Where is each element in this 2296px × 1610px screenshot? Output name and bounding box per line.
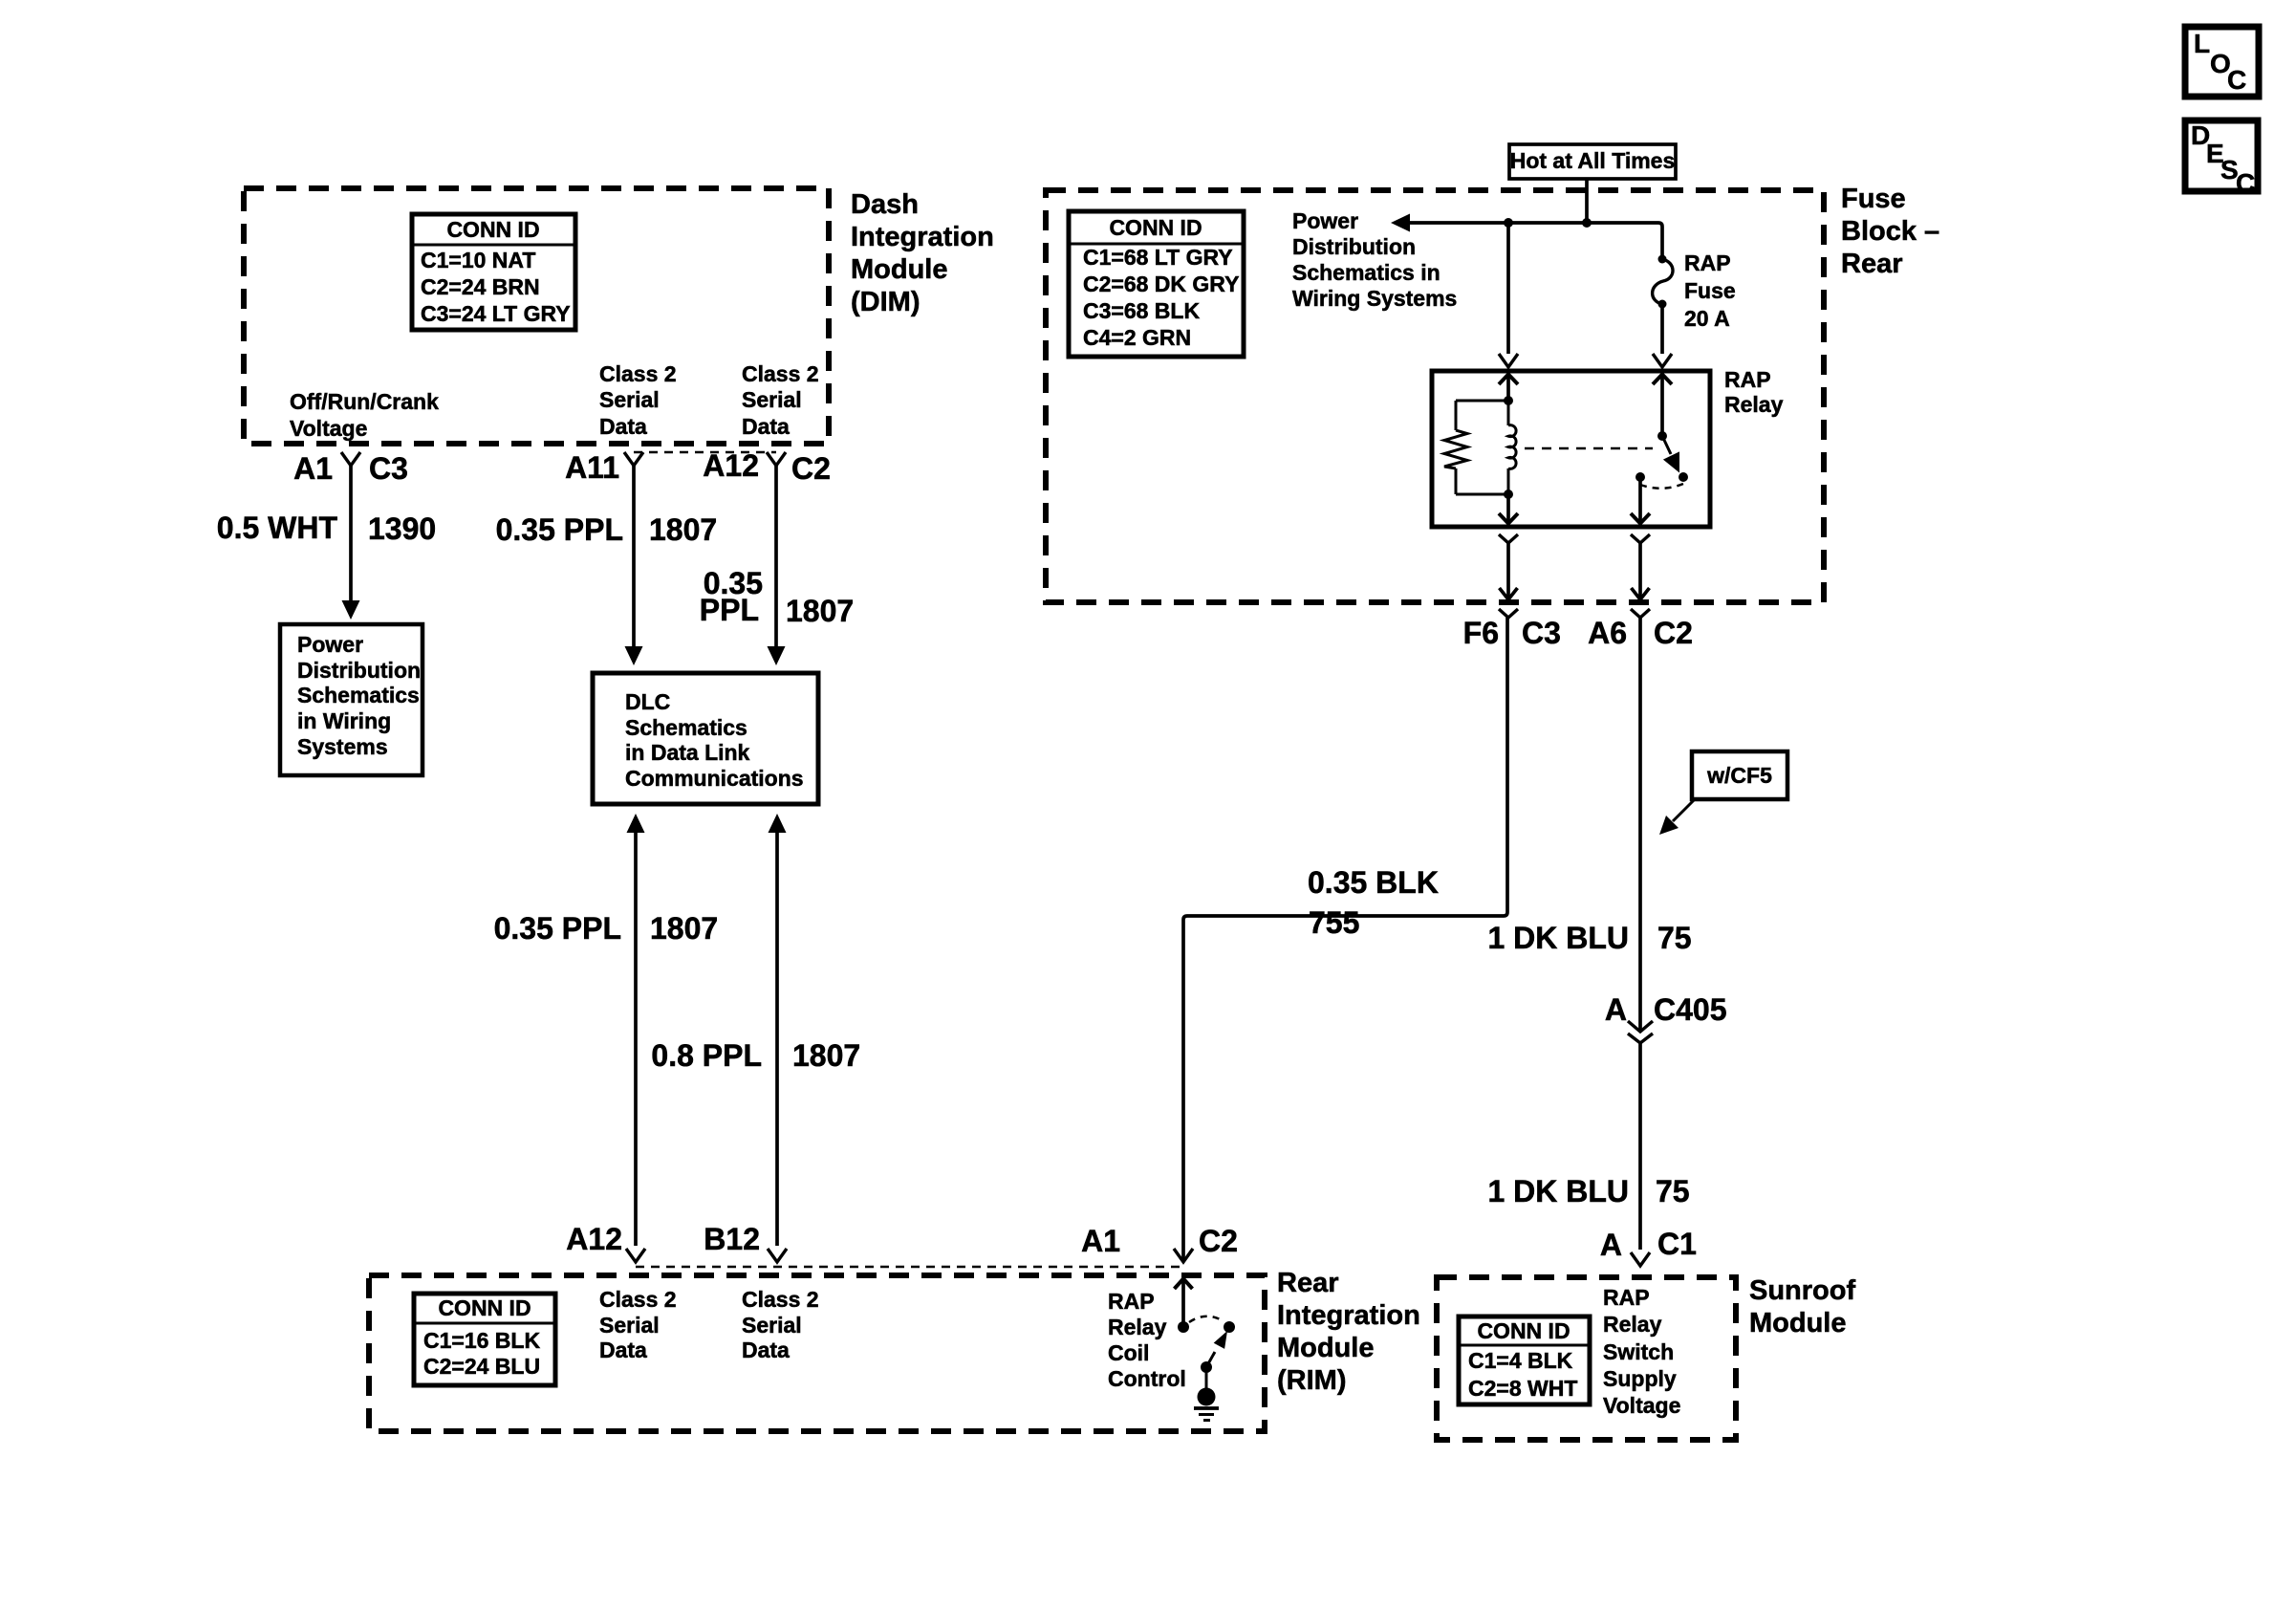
label: RAP Fuse 20 A — [1684, 250, 1736, 331]
connector fork pin A1/C3 of DIM — [341, 452, 360, 466]
svg-text:C2=24 BRN: C2=24 BRN — [421, 274, 540, 299]
svg-text:in Wiring: in Wiring — [297, 708, 391, 733]
svg-text:1807: 1807 — [649, 512, 717, 547]
connector ID table (Sunroof) — [1459, 1316, 1590, 1404]
junction node on bus (hot feed) — [1582, 218, 1592, 228]
svg-text:Class 2: Class 2 — [599, 1287, 677, 1312]
connector ID table (RIM) — [414, 1294, 555, 1385]
ground symbol — [1194, 1388, 1219, 1421]
svg-text:A1: A1 — [293, 451, 333, 486]
svg-text:Distribution: Distribution — [297, 658, 421, 683]
off-page box: DLC Schematics in Data Link Communications — [593, 673, 818, 804]
svg-text:Block –: Block – — [1841, 216, 1939, 247]
svg-text:Schematics: Schematics — [297, 683, 420, 707]
wire: circuit 1807 from RIM A12 up to DLC — [634, 833, 638, 1246]
svg-text:Systems: Systems — [297, 734, 388, 759]
svg-text:1807: 1807 — [786, 594, 854, 628]
wire: fuse down to relay switch pin — [1660, 304, 1664, 354]
svg-text:Serial: Serial — [742, 387, 802, 412]
svg-text:A1: A1 — [1081, 1224, 1120, 1258]
connector ID table (Fuse Block) — [1069, 211, 1244, 357]
label: Class 2 Serial Data (RIM B12) — [742, 1287, 819, 1362]
svg-text:Sunroof: Sunroof — [1749, 1275, 1855, 1306]
svg-text:C2: C2 — [791, 451, 831, 486]
svg-text:0.35 BLK: 0.35 BLK — [1308, 865, 1439, 900]
wire: circuit 1807 from DIM A11 down to DLC — [632, 466, 636, 648]
label: RAP Relay Coil Control — [1108, 1289, 1186, 1391]
arrowhead into DLC box bottom (right) — [769, 814, 787, 833]
inline connector C405 pin A — [1628, 1021, 1653, 1043]
svg-text:A: A — [1600, 1228, 1622, 1262]
svg-text:C1=16 BLK: C1=16 BLK — [423, 1328, 540, 1353]
svg-text:DLC: DLC — [625, 689, 670, 714]
arrow from w/CF5 tag to wire — [1659, 800, 1694, 835]
svg-text:C4=2 GRN: C4=2 GRN — [1083, 325, 1191, 350]
svg-text:Class 2: Class 2 — [599, 361, 677, 386]
svg-text:Power: Power — [297, 632, 363, 657]
arrowhead into DLC box bottom (left) — [627, 814, 645, 833]
svg-text:Switch: Switch — [1603, 1339, 1674, 1364]
relay switch contact node (output) — [1635, 472, 1645, 482]
svg-text:Integration: Integration — [1277, 1300, 1420, 1331]
svg-text:C2: C2 — [1199, 1224, 1238, 1258]
wire: from Hot at All Times down to bus — [1585, 179, 1589, 223]
arrowhead into Power Distribution box — [342, 600, 360, 620]
relay coil pin arrow (up) — [1499, 375, 1518, 385]
connector fork at relay coil pin — [1499, 354, 1518, 367]
module box: Rear Integration Module (RIM) dashed outline — [369, 1275, 1265, 1431]
svg-text:RAP: RAP — [1603, 1285, 1650, 1310]
driver switch node (right) — [1224, 1321, 1235, 1333]
label: module title "Fuse Block - Rear" — [1841, 184, 1939, 279]
svg-text:w/CF5: w/CF5 — [1706, 763, 1772, 788]
label: RAP Relay — [1724, 367, 1784, 417]
svg-text:C: C — [2236, 168, 2255, 198]
svg-text:Data: Data — [742, 1338, 790, 1362]
svg-text:in Data Link: in Data Link — [625, 740, 750, 765]
RIM driver pin arrow (up) at A1 — [1175, 1279, 1193, 1328]
connector fork pin A12/C2 of DIM — [767, 452, 786, 466]
wire: circuit 755 from fuse block F6 to RIM A1 — [1183, 618, 1507, 1260]
svg-text:C2=8 WHT: C2=8 WHT — [1468, 1376, 1577, 1401]
label: Class 2 Serial Data (RIM A12) — [599, 1287, 677, 1362]
relay suppression resistor branch — [1444, 401, 1508, 494]
svg-text:Dash: Dash — [851, 189, 919, 220]
reference tab box LOC — [2185, 27, 2259, 97]
svg-text:Class 2: Class 2 — [742, 1287, 819, 1312]
svg-text:1390: 1390 — [368, 511, 436, 546]
label: Class 2 Serial Data (A11) — [599, 361, 677, 439]
svg-text:755: 755 — [1309, 905, 1359, 940]
svg-text:Serial: Serial — [599, 1313, 660, 1338]
svg-text:Rear: Rear — [1841, 249, 1903, 279]
svg-text:A12: A12 — [566, 1222, 622, 1256]
wire: circuit 1807 from RIM B12 up to DLC — [775, 833, 779, 1246]
svg-text:Coil: Coil — [1108, 1340, 1149, 1365]
dashed actuation link from coil to switch — [1525, 447, 1653, 450]
svg-text:C2=24 BLU: C2=24 BLU — [423, 1354, 540, 1379]
svg-text:C3=24 LT GRY: C3=24 LT GRY — [421, 301, 571, 326]
power feed box: Hot at All Times — [1509, 144, 1676, 179]
svg-text:(DIM): (DIM) — [851, 287, 920, 317]
connector fork at sunroof pin A/C1 — [1631, 1252, 1650, 1266]
module box: Sunroof Module dashed outline — [1437, 1277, 1736, 1440]
svg-text:CONN ID: CONN ID — [1477, 1318, 1570, 1343]
svg-text:C2: C2 — [1654, 616, 1693, 650]
svg-text:1807: 1807 — [792, 1038, 860, 1073]
label: RAP Relay Switch Supply Voltage — [1603, 1285, 1680, 1418]
module box: Dash Integration Module (DIM) dashed outline — [244, 188, 829, 444]
relay switch blade with arrowhead — [1662, 436, 1671, 454]
svg-text:CONN ID: CONN ID — [1109, 215, 1202, 240]
fuse RAP Fuse 20 A — [1653, 255, 1673, 309]
svg-text:Fuse: Fuse — [1841, 184, 1906, 214]
svg-text:CONN ID: CONN ID — [446, 217, 539, 242]
module box: Fuse Block - Rear dashed outline — [1046, 190, 1824, 602]
svg-text:Integration: Integration — [851, 222, 994, 252]
svg-text:C3: C3 — [369, 451, 408, 486]
relay internal node (coil top) — [1504, 396, 1513, 405]
off-page box: Power Distribution Schematics in Wiring Systems — [280, 624, 422, 775]
connector ID table (DIM) — [412, 214, 575, 330]
svg-text:Data: Data — [599, 414, 647, 439]
svg-text:RAP: RAP — [1108, 1289, 1155, 1314]
svg-text:A: A — [1605, 992, 1627, 1027]
svg-text:Class 2: Class 2 — [742, 361, 819, 386]
svg-text:C1: C1 — [1657, 1227, 1697, 1261]
svg-text:75: 75 — [1656, 1174, 1690, 1208]
svg-text:C1=10 NAT: C1=10 NAT — [421, 248, 535, 272]
svg-text:L: L — [2194, 29, 2210, 58]
driver switch node (left) — [1178, 1321, 1189, 1333]
svg-text:Hot at All Times: Hot at All Times — [1510, 148, 1676, 173]
wire: switch to ground — [1205, 1367, 1208, 1391]
svg-text:Control: Control — [1108, 1366, 1186, 1391]
svg-text:Module: Module — [851, 254, 948, 285]
svg-text:Module: Module — [1749, 1308, 1847, 1338]
option tag box w/CF5 — [1692, 751, 1787, 799]
svg-text:Relay: Relay — [1724, 392, 1784, 417]
arrowhead into DLC box top (left) — [625, 646, 643, 665]
relay switch contact node (closed side) — [1679, 472, 1688, 482]
svg-text:0.5 WHT: 0.5 WHT — [217, 511, 338, 545]
svg-text:Distribution: Distribution — [1292, 234, 1416, 259]
wire: circuit 75 from fuse block A6 down to C405 — [1638, 618, 1642, 1031]
connector fork at relay switch pin — [1653, 354, 1672, 367]
svg-text:RAP: RAP — [1724, 367, 1771, 392]
svg-text:C: C — [2227, 65, 2246, 95]
svg-text:Voltage: Voltage — [1603, 1393, 1680, 1418]
label: module title "Sunroof Module" — [1749, 1275, 1855, 1338]
svg-text:Data: Data — [742, 414, 790, 439]
svg-text:F6: F6 — [1463, 616, 1499, 650]
wire: relay to fuse block border (right) — [1638, 543, 1642, 598]
arrowhead to Power Distribution off-page (pointing left) — [1391, 214, 1410, 232]
svg-text:1 DK BLU: 1 DK BLU — [1487, 921, 1629, 955]
svg-text:C3: C3 — [1522, 616, 1561, 650]
label: Off/Run/Crank Voltage — [290, 389, 439, 441]
label: module title "Rear Integration Module (RIM)" — [1277, 1268, 1420, 1396]
svg-text:PPL: PPL — [700, 593, 759, 627]
connector fork below fuse block border F6/C3 — [1499, 609, 1518, 618]
svg-text:75: 75 — [1657, 921, 1692, 955]
svg-text:0.35 PPL: 0.35 PPL — [496, 512, 623, 547]
connector fork pin A12 of RIM — [626, 1249, 645, 1262]
dashed throw arc under switch — [1640, 484, 1683, 489]
relay coil output arrow (down) — [1506, 494, 1510, 522]
driver switch blade with arrowhead — [1206, 1331, 1227, 1367]
svg-text:0.35 PPL: 0.35 PPL — [494, 911, 621, 946]
connector fork pin A11 of DIM — [624, 452, 643, 466]
wire: circuit 1807 from DIM C2 down to DLC — [774, 466, 778, 648]
svg-text:Module: Module — [1277, 1333, 1375, 1363]
wire: relay to fuse block border (left) — [1506, 543, 1510, 598]
label: module title "Dash Integration Module (DIM)" — [851, 189, 994, 317]
svg-text:Rear: Rear — [1277, 1268, 1339, 1298]
relay RAP Relay box — [1432, 371, 1710, 527]
connector fork pin A1/C2 of RIM — [1174, 1249, 1193, 1262]
driver switch lower node — [1201, 1361, 1212, 1373]
relay switch output arrow (down) — [1638, 477, 1642, 522]
svg-text:(RIM): (RIM) — [1277, 1365, 1346, 1396]
svg-text:Schematics: Schematics — [625, 715, 747, 740]
connector fork below relay (left pin) — [1499, 534, 1518, 543]
svg-text:A6: A6 — [1588, 616, 1627, 650]
dashed throw arc over driver switch — [1189, 1316, 1224, 1322]
svg-text:20 A: 20 A — [1684, 306, 1730, 331]
svg-text:A11: A11 — [565, 450, 619, 485]
svg-text:CONN ID: CONN ID — [438, 1295, 531, 1320]
relay coil winding — [1508, 401, 1516, 494]
svg-text:Supply: Supply — [1603, 1366, 1677, 1391]
svg-text:RAP: RAP — [1684, 250, 1731, 275]
wire: horizontal bus to Power Distribution — [1407, 223, 1662, 256]
svg-text:1 DK BLU: 1 DK BLU — [1487, 1174, 1629, 1208]
wire: circuit 1390 from DIM A1 down to Power Distribution — [349, 466, 353, 602]
svg-text:Serial: Serial — [599, 387, 660, 412]
arrowhead into DLC box top (right) — [768, 646, 786, 665]
svg-text:Data: Data — [599, 1338, 647, 1362]
svg-text:C2=68 DK GRY: C2=68 DK GRY — [1083, 272, 1239, 296]
svg-text:A12: A12 — [703, 448, 759, 483]
wire: circuit 75 from C405 down to sunroof module — [1638, 1043, 1642, 1250]
label: Class 2 Serial Data (A12) — [742, 361, 819, 439]
svg-text:0.8 PPL: 0.8 PPL — [651, 1038, 762, 1073]
svg-text:Power: Power — [1292, 208, 1358, 233]
junction node on bus (coil feed) — [1504, 218, 1513, 228]
bus link dashed between A11 and A12 — [634, 451, 776, 454]
svg-text:C1=68 LT GRY: C1=68 LT GRY — [1083, 245, 1233, 270]
svg-text:C3=68 BLK: C3=68 BLK — [1083, 298, 1200, 323]
bus link dashed between A12, B12 and A1 — [636, 1266, 1183, 1269]
svg-text:Relay: Relay — [1603, 1312, 1662, 1337]
reference tab box DESC — [2185, 120, 2258, 198]
svg-text:Communications: Communications — [625, 766, 804, 791]
relay internal node (coil bottom) — [1504, 490, 1513, 499]
connector fork pin B12 of RIM — [768, 1249, 787, 1262]
svg-text:Schematics in: Schematics in — [1292, 260, 1440, 285]
relay switch common node — [1657, 431, 1667, 441]
svg-text:Off/Run/Crank: Off/Run/Crank — [290, 389, 439, 414]
svg-text:Wiring Systems: Wiring Systems — [1292, 286, 1457, 311]
svg-text:B12: B12 — [704, 1222, 760, 1256]
wire: bus down to relay coil pin — [1506, 223, 1510, 354]
svg-text:Serial: Serial — [742, 1313, 802, 1338]
svg-text:Fuse: Fuse — [1684, 278, 1736, 303]
svg-text:Voltage: Voltage — [290, 416, 367, 441]
svg-text:Relay: Relay — [1108, 1315, 1167, 1339]
svg-text:C1=4 BLK: C1=4 BLK — [1468, 1348, 1573, 1373]
svg-text:1807: 1807 — [650, 911, 718, 946]
connector fork below relay (right pin) — [1631, 534, 1650, 543]
svg-text:C405: C405 — [1654, 992, 1727, 1027]
connector fork below fuse block border A6/C2 — [1631, 609, 1650, 618]
relay switch common pin arrow (up) — [1653, 375, 1672, 385]
label: Power Distribution Schematics in Wiring Systems — [1292, 208, 1457, 311]
